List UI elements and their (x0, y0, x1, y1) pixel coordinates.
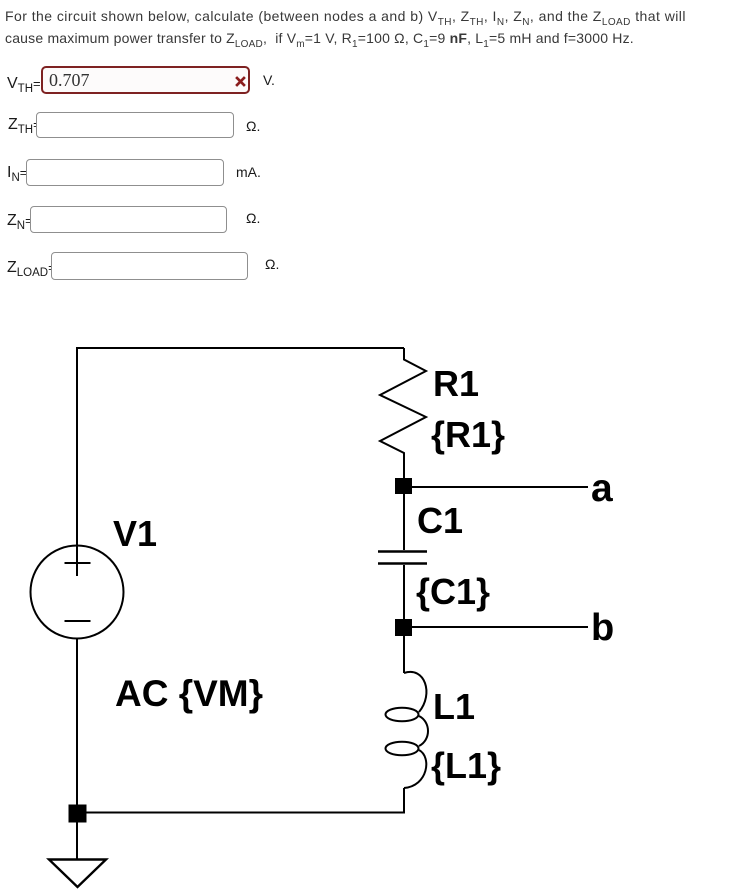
svg-text:{L1}: {L1} (431, 745, 501, 786)
answer box ZN (30, 206, 227, 233)
svg-text:C1: C1 (417, 500, 463, 541)
svg-text:AC {VM}: AC {VM} (115, 673, 263, 714)
unit Ohm (246, 119, 260, 133)
answer row ZN label (7, 213, 33, 229)
inductor L1 left loop 1 (386, 708, 419, 722)
wire node to ground (76, 822, 78, 860)
unit mA (236, 165, 261, 179)
answer row VTH label (7, 76, 41, 92)
inductor L1 left loop 2 (386, 742, 419, 756)
inductor L1 coil arc 3 (404, 750, 426, 788)
answer row ZLOAD label (7, 260, 56, 276)
wire to node b (412, 626, 588, 628)
resistor R1 zigzag (380, 348, 426, 479)
question text line 1 (5, 9, 686, 23)
svg-text:b: b (591, 607, 614, 649)
svg-text:L1: L1 (433, 686, 475, 727)
svg-text:a: a (591, 467, 613, 510)
bottom junction square (69, 805, 87, 823)
wire top horizontal (76, 347, 404, 349)
wire source bottom to bottom node (76, 639, 78, 813)
answer box ZTH (36, 112, 234, 138)
inductor L1 coil arc 1 (404, 672, 426, 712)
answer row ZTH label (8, 117, 41, 133)
answer row IN label (7, 165, 27, 181)
node a junction square (395, 478, 412, 494)
answer box VTH (wrong, red) (41, 66, 250, 94)
svg-text:{C1}: {C1} (416, 571, 490, 612)
unit Ohm (246, 211, 260, 225)
svg-text:R1: R1 (433, 363, 479, 404)
unit V (263, 73, 275, 87)
voltage source V1 circle (31, 546, 124, 639)
wire node b to inductor (403, 636, 405, 673)
inductor L1 coil arc 2 (419, 716, 428, 746)
wire inductor to bottom wire (403, 788, 405, 813)
plus sign crossbar of V1 (65, 562, 91, 564)
svg-text:{R1}: {R1} (431, 414, 505, 455)
question text line 2 (5, 31, 634, 45)
capacitor C1 bottom plate (378, 562, 427, 565)
wire node a to capacitor (403, 494, 405, 550)
minus sign of V1 (65, 620, 91, 622)
svg-text:V1: V1 (113, 513, 157, 554)
answer box ZLOAD (51, 252, 248, 280)
wire top-left vertical (into + of source) (76, 347, 78, 576)
wire bottom horizontal (77, 812, 405, 814)
node b junction square (395, 619, 412, 636)
wire capacitor to node b (403, 565, 405, 620)
unit Ohm (265, 257, 279, 271)
capacitor C1 top plate (378, 550, 427, 553)
ground symbol (49, 860, 106, 888)
wire to node a (412, 486, 588, 488)
answer box IN (26, 159, 224, 186)
